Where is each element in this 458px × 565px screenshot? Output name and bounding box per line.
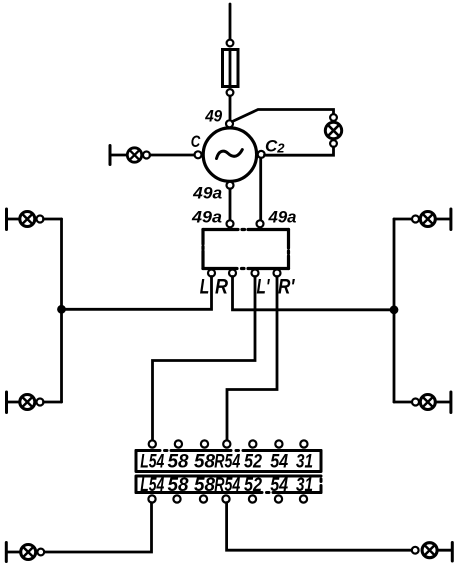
wire R' to connector R54 bbox=[227, 277, 277, 441]
svg-text:54: 54 bbox=[270, 475, 288, 496]
junction right bbox=[390, 305, 399, 314]
wire L' to connector L54 bbox=[153, 277, 256, 441]
wire ground to rear-left lamp bbox=[8, 401, 20, 404]
ground bottom-right lamp bbox=[451, 543, 454, 562]
terminal of bottom-right lamp bbox=[412, 547, 419, 554]
wire terminal C2 down to switch bbox=[259, 158, 262, 220]
connector strip upper row box bbox=[136, 451, 321, 472]
terminal of rear-left lamp bbox=[37, 399, 44, 406]
svg-text:31: 31 bbox=[296, 451, 313, 472]
wire L to left lamps bbox=[62, 277, 212, 310]
terminal of front-left lamp bbox=[37, 216, 44, 223]
terminal 58 top (1) bbox=[175, 440, 182, 447]
wire terminal 49 to indicator lamp (diagonal + horizontal) bbox=[232, 110, 333, 122]
wire fuse to flasher bbox=[229, 96, 232, 120]
terminal 54 bottom bbox=[275, 495, 282, 502]
svg-text:52: 52 bbox=[244, 451, 262, 472]
terminal 52 top bbox=[249, 440, 256, 447]
terminal 58 bottom (1) bbox=[173, 495, 180, 502]
wire ground to front-left lamp bbox=[8, 218, 20, 221]
terminal of bottom-left lamp bbox=[37, 549, 44, 556]
wire rear-left lamp to vertical bbox=[44, 401, 62, 404]
svg-text:L': L' bbox=[257, 276, 271, 299]
wire lamp to ground bottom-right bbox=[439, 549, 451, 552]
terminal L of switch bbox=[208, 270, 215, 277]
rear-left turn lamp bbox=[20, 395, 35, 410]
svg-text:54: 54 bbox=[270, 451, 288, 472]
ground bottom-left lamp bbox=[5, 543, 8, 562]
wire pilot lamp to terminal C bbox=[150, 154, 194, 157]
svg-text:31: 31 bbox=[296, 475, 313, 496]
svg-text:49a: 49a bbox=[268, 207, 297, 226]
terminal bottom of indicator lamp bbox=[330, 140, 337, 147]
terminal R of switch bbox=[229, 270, 236, 277]
svg-text:R': R' bbox=[278, 276, 295, 299]
svg-text:49a: 49a bbox=[191, 208, 222, 227]
terminal of left pilot lamp bbox=[143, 152, 150, 159]
bottom-right turn lamp bbox=[422, 543, 437, 558]
bottom-left turn lamp bbox=[21, 545, 36, 560]
ground rear-left lamp bbox=[5, 392, 8, 413]
pilot lamp left of flasher bbox=[127, 148, 141, 162]
svg-text:58: 58 bbox=[194, 475, 215, 496]
terminal 54 top bbox=[275, 440, 282, 447]
terminal L54 top bbox=[149, 440, 156, 447]
svg-text:R54: R54 bbox=[214, 475, 240, 496]
wire front-left lamp to vertical bbox=[44, 218, 62, 221]
terminal 31 bottom bbox=[300, 495, 307, 502]
svg-text:58: 58 bbox=[168, 475, 189, 496]
svg-text:58: 58 bbox=[194, 451, 215, 472]
terminal top of indicator lamp bbox=[330, 114, 337, 121]
rear-right turn lamp bbox=[420, 395, 435, 410]
ground left pilot lamp bbox=[109, 146, 112, 165]
terminal L' of switch bbox=[252, 270, 259, 277]
svg-text:52: 52 bbox=[244, 475, 262, 496]
terminal 52 bottom bbox=[249, 495, 256, 502]
wire terminal 49a down to switch bbox=[229, 189, 232, 221]
flasher relay (blinker unit) bbox=[203, 128, 256, 181]
ground front-right lamp bbox=[449, 209, 452, 230]
terminal of rear-right lamp bbox=[412, 399, 419, 406]
terminal 49a of flasher bbox=[227, 182, 234, 189]
svg-text:R: R bbox=[215, 276, 229, 299]
wire R to right lamps bbox=[233, 277, 395, 310]
wire indicator lamp to terminal C2 bbox=[265, 147, 334, 155]
svg-text:49a: 49a bbox=[192, 183, 222, 202]
svg-text:L54: L54 bbox=[140, 475, 164, 496]
wire ground to bottom-left lamp bbox=[8, 551, 21, 554]
wire lamp to ground rear-right bbox=[435, 401, 449, 404]
indicator lamp bbox=[325, 122, 341, 138]
connector strip lower row box bbox=[136, 476, 321, 493]
terminal C of flasher bbox=[195, 151, 202, 158]
ground rear-right lamp bbox=[449, 392, 452, 413]
wire supply feed (top) bbox=[229, 4, 232, 40]
svg-text:49: 49 bbox=[204, 107, 222, 126]
wire rear-right lamp to vertical bbox=[394, 401, 412, 404]
terminal 49a right on switch bbox=[257, 220, 264, 227]
front-left turn lamp bbox=[20, 212, 35, 227]
wire R54 bottom to rear lamp right bbox=[227, 503, 412, 551]
fuse bbox=[223, 40, 239, 96]
svg-text:L54: L54 bbox=[140, 451, 164, 472]
svg-text:R54: R54 bbox=[214, 451, 240, 472]
wire right lamps vertical bbox=[393, 219, 396, 402]
front-right turn lamp bbox=[420, 212, 435, 227]
svg-text:58: 58 bbox=[168, 451, 189, 472]
terminal R54 top bbox=[223, 440, 230, 447]
terminal 49a left on switch bbox=[227, 220, 234, 227]
svg-text:C: C bbox=[191, 132, 201, 151]
wire ground to pilot lamp bbox=[112, 154, 128, 157]
ground front-left lamp bbox=[5, 209, 8, 230]
terminal 49 of flasher bbox=[226, 120, 233, 127]
terminal 58 top (2) bbox=[201, 440, 208, 447]
wire front-right lamp to vertical bbox=[394, 218, 412, 221]
wire lamp to ground front-right bbox=[435, 218, 449, 221]
terminal R' of switch bbox=[274, 270, 281, 277]
junction left bbox=[57, 305, 66, 314]
svg-text:L: L bbox=[200, 276, 210, 299]
terminal C2 of flasher bbox=[258, 151, 265, 158]
terminal 31 top bbox=[300, 440, 307, 447]
terminal 58 bottom (2) bbox=[200, 495, 207, 502]
wire left lamps vertical bbox=[60, 219, 63, 402]
terminal R54 bottom bbox=[222, 495, 229, 502]
terminal of front-right lamp bbox=[412, 216, 419, 223]
turn-signal switch box bbox=[203, 230, 289, 269]
wire L54 bottom to rear lamp left bbox=[46, 503, 152, 552]
terminal L54 bottom bbox=[148, 495, 155, 502]
